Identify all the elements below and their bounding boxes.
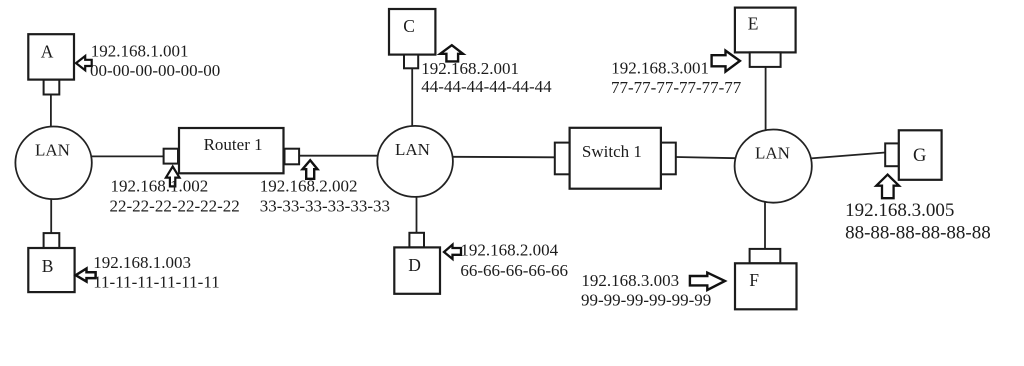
router R1 right port connector xyxy=(285,149,300,165)
svg-text:192.168.2.004: 192.168.2.004 xyxy=(460,241,558,260)
svg-text:192.168.3.003: 192.168.3.003 xyxy=(581,271,679,290)
arrow right at F xyxy=(690,273,725,290)
host G connector xyxy=(885,143,899,166)
svg-text:11-11-11-11-11-11: 11-11-11-11-11-11 xyxy=(93,272,220,291)
label G IP/MAC xyxy=(845,200,991,244)
svg-text:C: C xyxy=(403,16,415,36)
svg-text:88-88-88-88-88-88: 88-88-88-88-88-88 xyxy=(845,223,991,244)
label E IP/MAC xyxy=(611,59,742,98)
wire LAN1 to Router 1 xyxy=(90,155,164,157)
label F IP/MAC xyxy=(581,271,711,309)
svg-text:A: A xyxy=(41,42,54,62)
svg-text:G: G xyxy=(913,146,926,166)
LAN circle 3 xyxy=(735,130,812,203)
svg-text:B: B xyxy=(42,256,54,276)
svg-text:Switch 1: Switch 1 xyxy=(582,142,642,161)
host E connector xyxy=(750,52,781,67)
svg-text:192.168.1.003: 192.168.1.003 xyxy=(93,253,191,272)
wire Switch 1 to LAN3 xyxy=(676,157,736,158)
arrow left at B xyxy=(76,269,96,282)
router R1 left port connector xyxy=(164,149,178,164)
label C IP/MAC xyxy=(421,59,552,96)
arrow left at A xyxy=(76,56,92,70)
label D IP/MAC xyxy=(460,241,568,280)
host F xyxy=(735,263,797,309)
svg-text:LAN: LAN xyxy=(35,141,70,160)
svg-text:D: D xyxy=(408,255,421,275)
host C xyxy=(389,9,435,55)
host G xyxy=(899,130,942,180)
wire Router 1 to LAN2 xyxy=(299,155,378,157)
switch S1 left port connector xyxy=(555,143,570,175)
host B xyxy=(28,248,74,292)
arrow up at C xyxy=(440,45,463,61)
svg-text:66-66-66-66-66: 66-66-66-66-66 xyxy=(460,261,568,280)
label A IP/MAC xyxy=(90,41,220,80)
wire E to LAN3 xyxy=(765,67,767,131)
arrow right at E xyxy=(712,51,740,72)
wire B to LAN1 xyxy=(50,199,52,233)
wire LAN3 to F xyxy=(764,202,766,249)
host A xyxy=(28,34,74,79)
arrow left at D xyxy=(444,245,461,259)
svg-text:F: F xyxy=(749,270,759,290)
LAN circle 1 xyxy=(15,127,91,200)
host C connector xyxy=(404,55,418,69)
switch S1 right port connector xyxy=(661,143,676,175)
label Router1 left IP/MAC xyxy=(110,177,240,216)
wire A to LAN1 xyxy=(50,95,52,128)
svg-text:192.168.2.001: 192.168.2.001 xyxy=(421,59,519,78)
svg-text:LAN: LAN xyxy=(395,140,430,159)
svg-text:192.168.1.002: 192.168.1.002 xyxy=(111,177,209,196)
switch S1 xyxy=(570,128,661,189)
wire LAN2 to Switch 1 xyxy=(453,156,555,159)
host D xyxy=(394,247,440,293)
label B IP/MAC xyxy=(93,253,220,292)
svg-text:99-99-99-99-99-99: 99-99-99-99-99-99 xyxy=(581,290,711,309)
arrow up at Router1 right port xyxy=(303,160,318,179)
LAN circle 2 xyxy=(377,126,453,197)
svg-text:192.168.3.001: 192.168.3.001 xyxy=(611,59,709,78)
svg-text:44-44-44-44-44-44: 44-44-44-44-44-44 xyxy=(421,77,552,96)
svg-text:00-00-00-00-00-00: 00-00-00-00-00-00 xyxy=(90,61,220,80)
svg-text:192.168.1.001: 192.168.1.001 xyxy=(91,41,189,60)
wire LAN2 to D xyxy=(416,197,418,233)
svg-text:22-22-22-22-22-22: 22-22-22-22-22-22 xyxy=(110,196,240,215)
arrow up at G xyxy=(876,175,899,199)
host F connector xyxy=(750,249,781,263)
svg-text:Router 1: Router 1 xyxy=(204,135,263,154)
host B connector xyxy=(44,233,60,248)
host E xyxy=(735,8,796,53)
svg-text:LAN: LAN xyxy=(755,143,790,162)
svg-text:192.168.3.005: 192.168.3.005 xyxy=(845,200,954,221)
wire C to LAN2 xyxy=(411,68,413,127)
arrow up at Router1 left port xyxy=(166,167,180,187)
svg-text:33-33-33-33-33-33: 33-33-33-33-33-33 xyxy=(260,197,390,216)
svg-text:E: E xyxy=(748,14,759,34)
svg-text:192.168.2.002: 192.168.2.002 xyxy=(260,177,358,196)
svg-text:77-77-77-77-77-77: 77-77-77-77-77-77 xyxy=(611,78,742,97)
router R1 xyxy=(179,128,284,173)
host A connector xyxy=(44,80,60,95)
wire LAN3 to G xyxy=(811,153,885,159)
host D connector xyxy=(409,233,424,248)
label Router1 right IP/MAC xyxy=(260,177,390,216)
